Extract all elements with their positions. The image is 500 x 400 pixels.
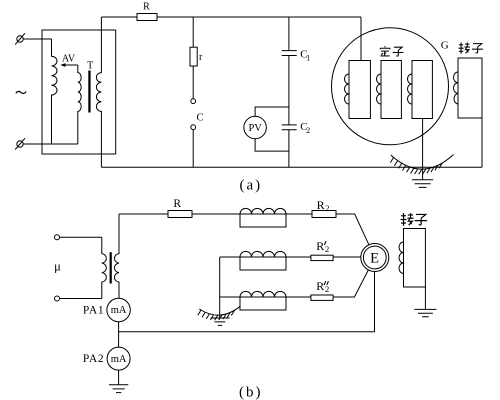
- svg-text:C: C: [197, 113, 204, 124]
- svg-text:R: R: [173, 198, 181, 210]
- svg-text:R: R: [316, 239, 324, 253]
- svg-text:1: 1: [306, 54, 310, 63]
- svg-text:μ: μ: [54, 260, 61, 274]
- svg-text:2: 2: [306, 126, 310, 135]
- svg-text:(a): (a): [239, 177, 262, 193]
- svg-text:mA: mA: [111, 305, 127, 316]
- svg-text:T: T: [87, 61, 93, 72]
- svg-text:(b): (b): [239, 384, 263, 400]
- svg-text:R: R: [316, 279, 324, 293]
- svg-text:2: 2: [325, 244, 329, 254]
- svg-text:PA1: PA1: [83, 304, 105, 316]
- svg-text:PA2: PA2: [83, 353, 105, 365]
- svg-text:G: G: [441, 39, 449, 51]
- svg-text:mA: mA: [111, 354, 127, 365]
- svg-text:AV: AV: [62, 54, 76, 65]
- svg-text:r: r: [199, 52, 203, 63]
- svg-text:2: 2: [325, 284, 329, 294]
- svg-text:PV: PV: [248, 123, 262, 134]
- svg-text:2: 2: [325, 203, 329, 213]
- svg-text:R: R: [317, 198, 325, 212]
- svg-text:R: R: [143, 2, 150, 13]
- svg-text:E: E: [370, 251, 379, 267]
